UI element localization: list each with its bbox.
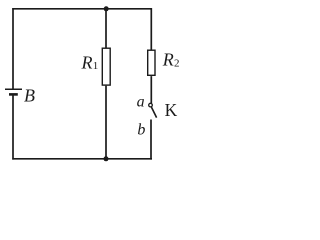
wire R1 branch upper [105, 9, 107, 48]
wire bottom [12, 158, 152, 160]
svg-text:2: 2 [174, 57, 180, 69]
node top junction [104, 6, 109, 11]
wire R2 branch upper [150, 8, 152, 50]
svg-text:R: R [162, 49, 174, 69]
wire R1 branch lower [105, 86, 107, 159]
label b [137, 122, 145, 139]
wire left upper [12, 8, 14, 89]
wire top [12, 8, 152, 10]
wire R2 branch to switch [150, 76, 152, 103]
svg-text:1: 1 [93, 60, 99, 72]
wire switch b to bottom [150, 120, 152, 160]
resistor R2 [148, 50, 155, 75]
svg-text:b: b [137, 122, 145, 139]
label B [24, 86, 35, 106]
switch K blade [151, 107, 156, 118]
node bottom junction [104, 156, 109, 161]
svg-text:K: K [165, 100, 178, 120]
switch K contact a circle [149, 103, 153, 107]
svg-text:B: B [24, 86, 35, 106]
battery B [5, 89, 22, 94]
label a [137, 94, 145, 111]
wire left lower [12, 95, 14, 160]
svg-text:a: a [137, 94, 145, 111]
label K [165, 100, 178, 120]
label R1 [81, 52, 99, 72]
svg-text:R: R [81, 52, 93, 72]
label R2 [162, 49, 180, 69]
resistor R1 [102, 48, 110, 85]
